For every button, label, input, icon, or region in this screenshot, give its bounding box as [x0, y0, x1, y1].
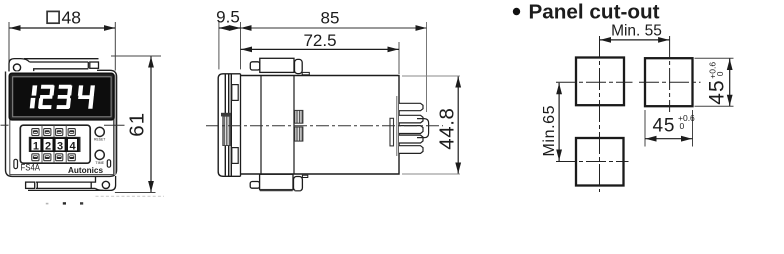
centerline vertical A-C: [599, 36, 601, 192]
svg-text:9.5: 9.5: [216, 8, 240, 27]
thumbwheel digit window 2: [43, 138, 54, 152]
thumbwheel digit window 3: [55, 138, 66, 152]
dimension 85 line: [241, 27, 427, 29]
cutout square B: [645, 58, 693, 106]
dimension 85 ext line right: [426, 22, 428, 112]
side view bezel clip bottom: [232, 148, 238, 164]
dimension 61 line: [150, 57, 152, 193]
dimension 9.5 line: [219, 27, 241, 29]
centerline horizontal C: [556, 161, 629, 163]
side view top latch end: [295, 59, 303, 73]
svg-text:RESET: RESET: [94, 138, 105, 142]
centerline horizontal A: [556, 81, 633, 83]
stray faint line: [96, 195, 165, 197]
svg-text:FS4A: FS4A: [21, 162, 41, 172]
svg-text:Min. 55: Min. 55: [611, 23, 662, 40]
side view case collar line 1: [260, 76, 262, 175]
side view top latch body: [260, 58, 294, 72]
svg-text:2: 2: [45, 140, 51, 152]
side view bezel clip top: [232, 85, 238, 101]
7-segment digit 1: [30, 85, 38, 108]
side view panel section hatch: [223, 116, 231, 145]
front view mounting tab bottom: [26, 176, 116, 190]
dimension 61 ext line top: [111, 55, 161, 57]
svg-text:61: 61: [126, 112, 149, 137]
time button: [95, 150, 104, 159]
side view case collar line 2: [293, 76, 295, 175]
front view centerline tick left: [1, 124, 9, 126]
side view top latch foot: [302, 72, 309, 74]
dimension 45 bottom ext left: [644, 110, 646, 147]
svg-text:85: 85: [321, 9, 340, 28]
dimension 45 right line: [729, 59, 731, 107]
side view bottom latch end: [294, 177, 303, 191]
dimension squared-48 line: [10, 27, 116, 29]
svg-text:44.8: 44.8: [436, 107, 459, 149]
side view case back inner line: [396, 96, 398, 156]
thumbwheel up buttons: [32, 129, 75, 136]
side view top latch knob: [250, 62, 259, 70]
side view socket key: [390, 118, 394, 146]
thumbwheel digit window 4: [67, 138, 78, 152]
dimension 61 ext line bottom: [115, 192, 156, 194]
7-segment digit 4: [76, 85, 94, 108]
side view bottom latch foot: [302, 175, 307, 177]
reset button: [95, 127, 104, 136]
thumbwheel switch block: [20, 125, 90, 163]
side view bottom latch body: [260, 174, 293, 189]
dimension 44.8 ext line top: [402, 75, 460, 77]
svg-text:Min.65: Min.65: [541, 105, 558, 157]
side view terminal hatch bottom: [295, 127, 303, 141]
side view terminal hatch top: [295, 110, 303, 123]
center post: [417, 119, 429, 138]
side view centerline: [206, 125, 443, 127]
7-segment digit 3: [56, 85, 72, 109]
dimension 45 bottom line: [645, 138, 693, 140]
front view body flange: [6, 70, 117, 176]
dimension 45 right ext bottom: [695, 105, 734, 107]
dimension 45 bottom ext right: [692, 110, 694, 147]
svg-text:45: 45: [706, 79, 729, 104]
svg-text:Autonics: Autonics: [68, 166, 103, 175]
dimension squared-48 ext line right: [114, 22, 116, 71]
stray mark 2: [63, 202, 66, 204]
display inner frame: [13, 77, 111, 117]
svg-text:45: 45: [653, 116, 676, 137]
7-segment digit 2: [38, 85, 55, 109]
left slot: [14, 159, 18, 168]
stray mark 3: [80, 202, 83, 204]
pin 3: [399, 126, 423, 134]
dimension 72.5 ext line right: [398, 42, 400, 74]
front view lower panel: [10, 120, 114, 175]
thumbwheel digit window 1: [31, 138, 42, 152]
side view case outline: [241, 76, 400, 175]
centerline vertical B: [669, 36, 671, 112]
svg-text:1: 1: [33, 140, 39, 152]
front view centerline tick right: [104, 124, 125, 126]
pin 1: [399, 103, 423, 110]
thumbwheel down buttons: [32, 154, 75, 161]
pin 2: [399, 115, 423, 123]
side view panel section cap: [221, 113, 231, 117]
thumbwheel dark band: [29, 137, 81, 152]
dimension 44.8 line: [457, 77, 459, 174]
dimension 72.5 line: [241, 48, 400, 50]
svg-text:0: 0: [680, 121, 685, 131]
svg-text:0: 0: [715, 71, 725, 76]
cutout square A: [576, 58, 624, 106]
dimension Min 55 line: [600, 39, 670, 41]
svg-text:4: 4: [69, 140, 76, 152]
centerline horizontal B: [639, 81, 701, 83]
svg-text:48: 48: [62, 8, 81, 28]
svg-text:3: 3: [57, 140, 63, 152]
side view bezel: [218, 74, 240, 177]
dimension squared-48 label: [47, 11, 59, 23]
pin 5: [399, 146, 423, 154]
front view tab top screw hole: [13, 64, 20, 71]
cutout square C: [576, 138, 624, 186]
side view 9.5 ext line left: [218, 22, 220, 69]
thumbwheel column dividers: [42, 125, 66, 163]
side view case front edge: [240, 74, 242, 177]
svg-text:72.5: 72.5: [303, 31, 336, 50]
stray mark 1: [46, 203, 49, 205]
pin 4: [399, 135, 423, 143]
dimension 45 right ext top: [695, 57, 734, 59]
front view mounting tab top: [9, 59, 99, 74]
display bezel: [9, 73, 113, 119]
heading bullet: [513, 8, 520, 15]
dimension 45 right label: [706, 62, 729, 105]
side view bottom latch knob: [250, 182, 259, 189]
dimension Min 65 line: [558, 83, 560, 161]
side view bottom latch shade: [260, 189, 293, 191]
front view body right shade: [114, 75, 116, 176]
dimension squared-48 ext line left: [8, 22, 10, 62]
dimension 44.8 ext line bottom: [402, 173, 460, 175]
svg-text:Panel cut-out: Panel cut-out: [529, 2, 660, 24]
side view 9.5 ext line right: [240, 22, 242, 69]
svg-text:TIME: TIME: [95, 161, 104, 165]
right slot: [107, 160, 110, 167]
front view tab bottom screw hole: [102, 181, 109, 188]
